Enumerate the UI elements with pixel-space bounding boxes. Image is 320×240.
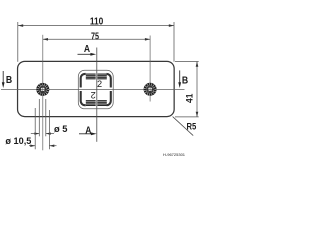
section marker A bottom (79, 126, 97, 137)
svg-text:ø 10,5: ø 10,5 (5, 136, 31, 146)
dim 41 extension bottom (175, 116, 199, 118)
dim dia10.5 line left (29, 145, 35, 147)
svg-text:H-96725301: H-96725301 (163, 152, 186, 157)
dim dia5 line right (46, 133, 54, 135)
connector corner bracket bottom-left (81, 91, 86, 105)
svg-text:A: A (85, 126, 91, 137)
dim 75 line (43, 38, 150, 40)
section line A-A (96, 48, 98, 142)
plate outline (18, 61, 175, 116)
dim dia5 arrow right (46, 132, 51, 135)
centerline vertical left hole (42, 35, 44, 151)
connector outer shell (78, 70, 113, 109)
centerline vertical right hole (149, 36, 151, 102)
connector bottom hatched bar (86, 101, 107, 106)
dim 110 arrow right (169, 24, 174, 27)
dim 110 extension left (17, 22, 19, 62)
dim 75 arrow right (145, 38, 150, 41)
dim dia10.5 extension left (34, 108, 36, 149)
svg-text:B: B (6, 74, 13, 86)
right hole inner circles (147, 86, 154, 93)
dim dia5 arrow left (34, 132, 39, 135)
svg-text:75: 75 (91, 32, 99, 43)
dim 41 line (196, 62, 198, 117)
dim dia5 extension right (45, 99, 47, 136)
svg-text:R5: R5 (187, 122, 197, 132)
dim dia10.5 arrow left (30, 145, 35, 148)
centerline horizontal through holes (1, 88, 185, 90)
svg-text:2: 2 (91, 90, 96, 100)
svg-text:2: 2 (97, 79, 102, 89)
dim 110 arrow left (18, 24, 23, 27)
connector corner bracket bottom-right (107, 91, 111, 105)
R5 leader line (173, 117, 194, 136)
svg-text:41: 41 (184, 94, 194, 103)
dim dia10.5 line right (49, 145, 56, 147)
dim dia5 extension left (38, 99, 40, 136)
svg-text:B: B (182, 74, 189, 86)
svg-text:ø 5: ø 5 (54, 124, 68, 134)
svg-text:A: A (84, 44, 90, 55)
connector top hatched bar (86, 74, 107, 79)
dim 41 extension top (175, 61, 199, 63)
dim 41 arrow top (196, 62, 199, 67)
section marker B left (2, 71, 13, 88)
left hole inner circles (39, 86, 46, 93)
dim dia10.5 extension right (48, 110, 50, 149)
dim dia10.5 arrow right (49, 145, 54, 148)
left hole knurled ring (38, 84, 49, 95)
right hole knurled ring (145, 84, 156, 95)
dim 41 arrow bottom (196, 112, 199, 117)
dim 110 line (18, 25, 174, 27)
section marker B right (178, 70, 188, 88)
connector corner bracket top-right (107, 74, 111, 88)
connector corner bracket top-left (81, 74, 86, 88)
section marker A top (78, 44, 97, 56)
dim 110 extension right (173, 22, 175, 62)
dim 75 arrow left (43, 38, 48, 41)
dim dia5 line left (31, 133, 40, 135)
svg-text:110: 110 (90, 17, 104, 28)
